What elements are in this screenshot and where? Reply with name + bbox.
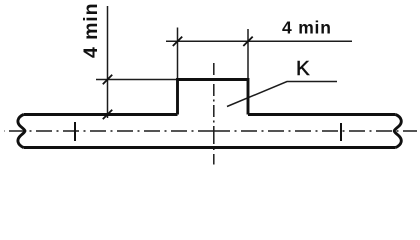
svg-text:4 min: 4 min xyxy=(80,3,102,58)
svg-text:K: K xyxy=(296,57,310,80)
svg-text:4 min: 4 min xyxy=(282,17,332,37)
